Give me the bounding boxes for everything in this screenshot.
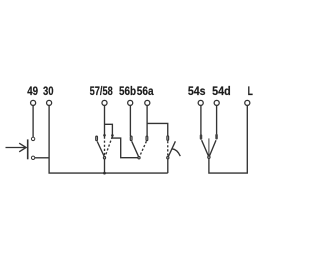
svg-text:L: L [248, 84, 253, 98]
svg-text:57/58: 57/58 [90, 84, 113, 98]
svg-text:49: 49 [27, 84, 38, 98]
svg-text:56a: 56a [137, 84, 154, 98]
svg-text:56b: 56b [119, 84, 136, 98]
svg-text:30: 30 [43, 84, 54, 98]
svg-text:54d: 54d [212, 84, 231, 98]
svg-text:54s: 54s [188, 84, 206, 98]
